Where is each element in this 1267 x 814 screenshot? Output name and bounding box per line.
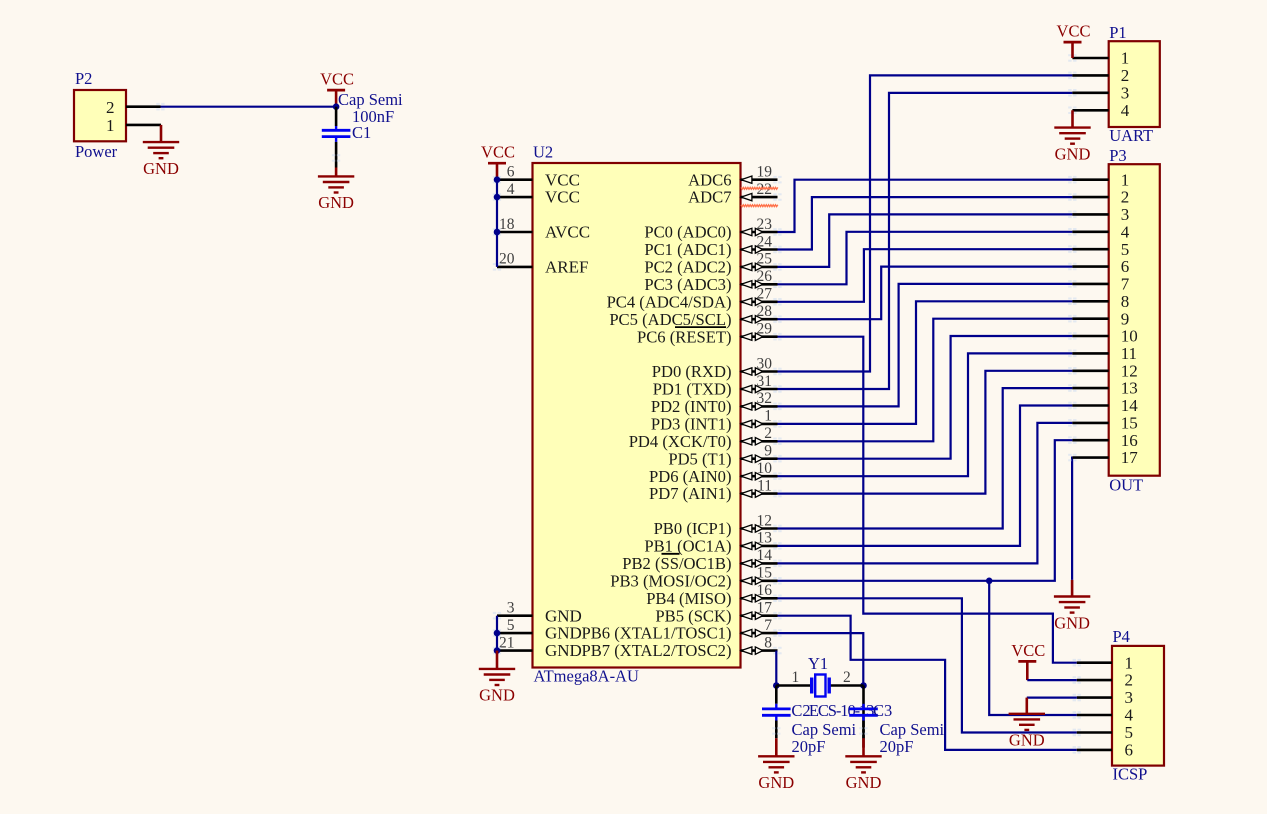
U2 pin 28 (PC5) [609, 303, 781, 329]
svg-text:UART: UART [1109, 126, 1153, 145]
svg-text:VCC: VCC [1057, 22, 1091, 41]
no-connect squiggle ADC6 [741, 187, 778, 189]
svg-text:VCC: VCC [545, 170, 580, 189]
svg-text:VCC: VCC [545, 188, 580, 207]
wire C2 to ground [772, 721, 780, 739]
wire PB3/MOSI to P3 pin 16 [778, 440, 1073, 581]
P3 pin 12 [1068, 361, 1138, 380]
U2 pin 10 (PD6) [649, 460, 782, 486]
svg-text:30: 30 [757, 355, 773, 372]
svg-text:GND: GND [1055, 144, 1091, 163]
ground symbol at C3 [845, 738, 881, 792]
ground symbol at P2 pin 1 [143, 125, 179, 178]
svg-text:1: 1 [1125, 653, 1134, 672]
svg-text:VCC: VCC [481, 143, 515, 162]
wire PC5 to P3 pin 6 [778, 267, 1073, 320]
wire PB1 to P3 pin 14 [778, 406, 1073, 546]
capacitor C1 100nF [322, 90, 403, 142]
svg-text:ATmega8A-AU: ATmega8A-AU [534, 667, 639, 686]
svg-text:2: 2 [1125, 671, 1134, 690]
wire crystal node1 to Y1 [776, 684, 810, 687]
svg-text:PB3 (MOSI/OC2): PB3 (MOSI/OC2) [610, 571, 731, 590]
U2 pin 25 (PC2) [644, 251, 781, 277]
capacitor C2 20pF [762, 701, 857, 756]
svg-text:14: 14 [1121, 396, 1139, 415]
svg-text:29: 29 [757, 321, 773, 338]
svg-text:17: 17 [757, 600, 773, 617]
junction U2 pin18 [494, 229, 501, 236]
connector P3 body [1109, 146, 1160, 495]
svg-text:GND: GND [545, 641, 582, 660]
ground symbol at U2 [479, 651, 515, 705]
P3 pin 9 [1068, 309, 1129, 328]
svg-text:10: 10 [757, 460, 773, 477]
svg-text:1: 1 [764, 408, 772, 425]
svg-text:2: 2 [1121, 66, 1130, 85]
svg-text:19: 19 [757, 164, 773, 181]
svg-text:13: 13 [757, 530, 773, 547]
junction U2 pin21 [494, 647, 501, 654]
svg-text:3: 3 [507, 600, 515, 617]
P3 pin 6 [1068, 257, 1129, 276]
svg-text:2: 2 [764, 425, 772, 442]
svg-text:GND: GND [846, 773, 882, 792]
IC U2 ATmega8A-AU body [533, 143, 741, 686]
wire U2 GND bus [496, 616, 498, 651]
U2 pin 23 (PC0) [644, 216, 781, 242]
wire C1 to ground [332, 142, 340, 168]
connector P4 body [1112, 627, 1164, 784]
wire PB7/XTAL2 to crystal [775, 651, 777, 686]
ground symbol at P4 pin 3 [1009, 698, 1045, 750]
P1 pin 1 [1068, 49, 1129, 68]
U2 pin 8 (PB7) [581, 634, 781, 660]
svg-text:PB1 (OC1A): PB1 (OC1A) [644, 537, 731, 556]
svg-text:32: 32 [757, 390, 773, 407]
svg-text:PD5 (T1): PD5 (T1) [668, 449, 731, 468]
P3 pin 13 [1068, 379, 1138, 398]
wire PC2 to P3 pin 3 [778, 214, 1073, 267]
junction U2 pin4 [494, 194, 501, 201]
svg-text:5: 5 [1125, 723, 1134, 742]
U2 pin 18 (AVCC) [493, 216, 590, 242]
ground symbol at C1 [318, 168, 354, 213]
wire PD0/RXD to P1 pin 2 [778, 75, 1073, 371]
wire PC3 to P3 pin 4 [778, 232, 1073, 284]
P4 pin 1 [1073, 653, 1133, 672]
P3 pin 11 [1068, 344, 1137, 363]
U2 pin 6 (VCC) [493, 164, 580, 190]
svg-text:PD3 (INT1): PD3 (INT1) [651, 415, 732, 434]
svg-text:12: 12 [1121, 361, 1138, 380]
svg-text:16: 16 [1121, 431, 1138, 450]
wire crystal to C2 [775, 686, 778, 704]
svg-text:PB0 (ICP1): PB0 (ICP1) [654, 519, 732, 538]
wire PD4 to P3 pin 9 [778, 319, 1073, 442]
svg-text:PC3 (ADC3): PC3 (ADC3) [644, 275, 731, 294]
svg-text:PC6 (RESET): PC6 (RESET) [637, 327, 732, 346]
ground symbol at C2 [758, 738, 794, 792]
svg-text:PD0 (RXD): PD0 (RXD) [652, 362, 732, 381]
svg-text:C2: C2 [791, 701, 810, 720]
svg-text:ADC6: ADC6 [688, 170, 731, 189]
svg-text:20pF: 20pF [880, 737, 914, 756]
svg-text:ICSP: ICSP [1113, 764, 1148, 783]
svg-text:P2: P2 [75, 69, 92, 88]
P3 pin 2 [1068, 188, 1129, 207]
svg-text:14: 14 [757, 547, 773, 564]
svg-text:7: 7 [764, 617, 772, 634]
svg-text:PC0 (ADC0): PC0 (ADC0) [644, 223, 731, 242]
P4 pin 3 [1073, 688, 1133, 707]
U2 pin 4 (VCC) [493, 181, 580, 207]
connector P2 body [74, 69, 126, 161]
svg-text:VCC: VCC [320, 70, 354, 89]
svg-text:P4: P4 [1113, 627, 1130, 646]
svg-text:13: 13 [1121, 379, 1138, 398]
wire PB0 to P3 pin 13 [778, 388, 1073, 528]
wire VCC node to C1 [335, 107, 338, 126]
wire PB6/XTAL1 to crystal [778, 633, 864, 685]
wire PD7 to P3 pin 12 [778, 371, 1073, 494]
svg-text:1: 1 [792, 669, 800, 686]
svg-text:VCC: VCC [1011, 641, 1045, 660]
svg-text:15: 15 [1121, 414, 1138, 433]
U2 pin 20 (AREF) [493, 251, 589, 277]
P1 pin 3 [1068, 83, 1129, 102]
wire crystal to C3 [862, 686, 865, 748]
wire PC4 to P3 pin 5 [778, 249, 1073, 302]
svg-text:U2: U2 [533, 143, 553, 162]
crystal Y1 ECS-10-13 [792, 654, 875, 720]
wire PC0 to P3 pin 1 [778, 180, 1073, 232]
svg-text:10: 10 [1121, 327, 1138, 346]
svg-text:6: 6 [1121, 257, 1130, 276]
svg-text:Y1: Y1 [808, 654, 828, 673]
junction crystal node 2 [860, 682, 867, 689]
P3 pin 14 [1068, 396, 1138, 415]
svg-text:1: 1 [106, 116, 115, 135]
svg-text:PB7 (XTAL2/TOSC2): PB7 (XTAL2/TOSC2) [581, 641, 731, 660]
power port VCC (U2) [481, 143, 515, 180]
svg-text:PC4 (ADC4/SDA): PC4 (ADC4/SDA) [607, 292, 732, 311]
svg-text:GND: GND [1009, 731, 1045, 750]
U2 pin 1 (PD3) [651, 408, 782, 434]
svg-text:26: 26 [757, 268, 773, 285]
svg-text:GND: GND [758, 773, 794, 792]
U2 pin 30 (PD0) [652, 355, 782, 381]
wire PB4/MISO to P4 pin 5 [778, 598, 1077, 732]
svg-text:2: 2 [1121, 188, 1130, 207]
wire P2 pin2 to C1/VCC node [161, 106, 337, 108]
P1 pin 4 [1068, 101, 1130, 120]
svg-text:9: 9 [1121, 309, 1130, 328]
wire PD5 to P3 pin 10 [778, 336, 1073, 459]
svg-text:4: 4 [1121, 222, 1130, 241]
svg-text:PB2 (SS/OC1B): PB2 (SS/OC1B) [622, 554, 731, 573]
overline SS (U2 pin 14) [662, 553, 680, 555]
svg-text:2: 2 [106, 98, 115, 117]
U2 pin 9 (PD5) [668, 443, 781, 469]
U2 pin 17 (PB5) [655, 600, 781, 626]
wire C3 to ground [859, 721, 867, 739]
P2 pin 2 [106, 98, 165, 117]
svg-text:5: 5 [507, 617, 515, 634]
junction node VCC/C1 [333, 103, 340, 110]
wire PB2 to P3 pin 15 [778, 423, 1073, 564]
U2 pin 26 (PC3) [644, 268, 781, 294]
U2 pin 21 (GND) [493, 634, 582, 660]
svg-text:PC5 (ADC5/SCL): PC5 (ADC5/SCL) [609, 310, 731, 329]
svg-text:18: 18 [499, 216, 515, 233]
capacitor C3 20pF [849, 701, 944, 756]
svg-text:27: 27 [757, 286, 773, 303]
wire PD1/TXD to P1 pin 3 [778, 93, 1073, 389]
P3 pin 10 [1068, 327, 1138, 346]
svg-text:OUT: OUT [1109, 476, 1143, 495]
svg-text:GND: GND [479, 686, 515, 705]
svg-text:AVCC: AVCC [545, 223, 590, 242]
P3 pin 5 [1068, 240, 1129, 259]
U2 pin 16 (PB4) [646, 582, 781, 608]
svg-text:23: 23 [757, 216, 773, 233]
svg-text:9: 9 [764, 443, 772, 460]
svg-text:6: 6 [507, 164, 515, 181]
svg-text:7: 7 [1121, 275, 1130, 294]
U2 pin 5 (GND) [493, 617, 582, 643]
U2 pin 7 (PB6) [581, 617, 781, 643]
P3 pin 4 [1068, 222, 1130, 241]
U2 pin 11 (PD7) [649, 477, 782, 503]
U2 pin 15 (PB3) [610, 565, 781, 591]
svg-text:PB6 (XTAL1/TOSC1): PB6 (XTAL1/TOSC1) [581, 624, 731, 643]
U2 pin 13 (PB1) [644, 530, 781, 556]
svg-text:24: 24 [757, 233, 773, 250]
power port VCC (P4) [1011, 641, 1045, 680]
svg-text:AREF: AREF [545, 258, 588, 277]
wire PD2 to P3 pin 7 [778, 284, 1073, 407]
P3 pin 17 [1068, 448, 1138, 467]
svg-text:GND: GND [318, 193, 354, 212]
wire Y1 to crystal node2 [830, 684, 863, 687]
junction U2 pin5 [494, 630, 501, 637]
P4 pin 2 [1073, 671, 1133, 690]
svg-text:C1: C1 [352, 123, 371, 142]
P3 pin 8 [1068, 292, 1129, 311]
junction PB3 MOSI node [986, 578, 993, 585]
svg-text:3: 3 [1121, 83, 1130, 102]
svg-text:3: 3 [1121, 205, 1130, 224]
svg-text:4: 4 [1121, 101, 1130, 120]
wire PD3 to P3 pin 8 [778, 301, 1073, 424]
no-connect squiggle ADC7 [741, 205, 778, 207]
svg-text:11: 11 [757, 477, 772, 494]
overline RESET (U2 pin 29) [675, 326, 726, 328]
P3 pin 3 [1068, 205, 1129, 224]
junction crystal node 1 [773, 682, 780, 689]
wire PD6 to P3 pin 11 [778, 353, 1073, 476]
svg-text:20pF: 20pF [792, 737, 826, 756]
U2 pin 3 (GND) [493, 600, 582, 626]
wire P4 pin 3 to ground [1027, 696, 1077, 698]
svg-text:31: 31 [757, 373, 773, 390]
power port VCC (C1) [320, 70, 354, 107]
svg-text:28: 28 [757, 303, 773, 320]
power port VCC (P1) [1057, 22, 1091, 58]
U2 pin 29 (PC6) [637, 321, 782, 347]
svg-text:ADC7: ADC7 [688, 188, 731, 207]
U2 pin 12 (PB0) [654, 512, 782, 538]
svg-text:11: 11 [1121, 344, 1137, 363]
svg-text:GND: GND [545, 606, 582, 625]
svg-text:3: 3 [1125, 688, 1134, 707]
svg-text:21: 21 [499, 634, 515, 651]
svg-text:4: 4 [1125, 706, 1134, 725]
P3 pin 7 [1068, 275, 1130, 294]
svg-text:12: 12 [757, 512, 773, 529]
svg-text:PD4 (XCK/T0): PD4 (XCK/T0) [629, 432, 732, 451]
svg-text:4: 4 [507, 181, 515, 198]
svg-text:PD7 (AIN1): PD7 (AIN1) [649, 484, 732, 503]
svg-text:15: 15 [757, 565, 773, 582]
wire U2 VCC bus [496, 180, 498, 267]
svg-text:8: 8 [1121, 292, 1130, 311]
svg-text:20: 20 [499, 251, 515, 268]
svg-text:6: 6 [1125, 741, 1134, 760]
svg-text:GND: GND [545, 624, 582, 643]
svg-text:PB4 (MISO): PB4 (MISO) [646, 589, 731, 608]
U2 pin 22 (ADC7) [688, 181, 781, 207]
ground symbol below P3 [1054, 580, 1090, 632]
wire P3 pin 17 to ground [1071, 458, 1074, 580]
P4 pin 5 [1073, 723, 1133, 742]
svg-text:16: 16 [757, 582, 773, 599]
svg-text:PD2 (INT0): PD2 (INT0) [651, 397, 732, 416]
wire PC6/RESET to P4 pin 1 [778, 337, 1077, 663]
svg-text:PD1 (TXD): PD1 (TXD) [653, 380, 732, 399]
svg-text:PC1 (ADC1): PC1 (ADC1) [644, 240, 731, 259]
wire PC1 to P3 pin 2 [778, 197, 1073, 249]
U2 pin 31 (PD1) [653, 373, 782, 399]
wire VCC to P4 pin 2 [1027, 679, 1077, 681]
U2 pin 32 (PD2) [651, 390, 782, 416]
svg-text:1: 1 [1121, 170, 1130, 189]
svg-text:Power: Power [75, 142, 118, 161]
svg-text:1: 1 [1121, 49, 1130, 68]
svg-text:5: 5 [1121, 240, 1130, 259]
P2 pin 1 [106, 116, 161, 135]
U2 pin 19 (ADC6) [688, 164, 781, 190]
wire PB5/SCK to P4 pin 6 [778, 616, 1077, 750]
svg-text:GND: GND [1054, 613, 1090, 632]
P4 pin 6 [1073, 741, 1133, 760]
svg-text:P1: P1 [1109, 23, 1126, 42]
junction U2 pin6 [494, 176, 501, 183]
svg-text:C3: C3 [873, 701, 892, 720]
svg-text:GND: GND [143, 159, 179, 178]
P3 pin 1 [1068, 170, 1129, 189]
ground symbol at P1 pin 4 [1054, 110, 1090, 163]
svg-text:PD6 (AIN0): PD6 (AIN0) [649, 467, 732, 486]
P3 pin 16 [1068, 431, 1138, 450]
P1 pin 2 [1068, 66, 1129, 85]
wire MOSI to P4 pin 4 [989, 581, 1077, 715]
P3 pin 15 [1068, 414, 1138, 433]
svg-text:P3: P3 [1109, 146, 1126, 165]
svg-text:2: 2 [843, 669, 851, 686]
svg-text:PB5 (SCK): PB5 (SCK) [655, 606, 731, 625]
connector P1 body [1109, 23, 1160, 145]
U2 pin 14 (PB2) [622, 547, 781, 573]
U2 pin 24 (PC1) [644, 233, 781, 259]
U2 pin 27 (PC4) [607, 286, 782, 312]
svg-text:25: 25 [757, 251, 773, 268]
svg-text:PC2 (ADC2): PC2 (ADC2) [644, 258, 731, 277]
svg-text:8: 8 [764, 634, 772, 651]
svg-text:17: 17 [1121, 448, 1139, 467]
U2 pin 2 (PD4) [629, 425, 782, 451]
P4 pin 4 [1073, 706, 1134, 725]
